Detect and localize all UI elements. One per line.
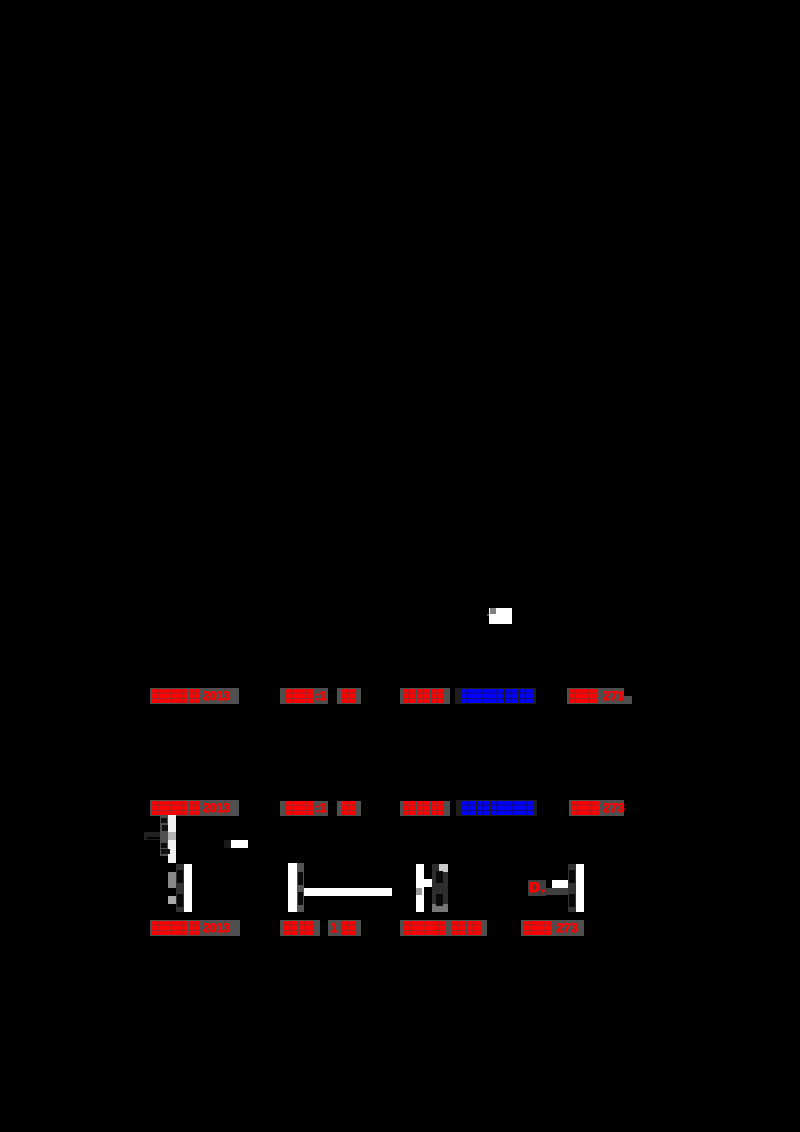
glyph marks S2: [177, 870, 183, 883]
white figure patch (problem image remnant): [489, 608, 512, 624]
glyph marks S1: [161, 818, 167, 823]
